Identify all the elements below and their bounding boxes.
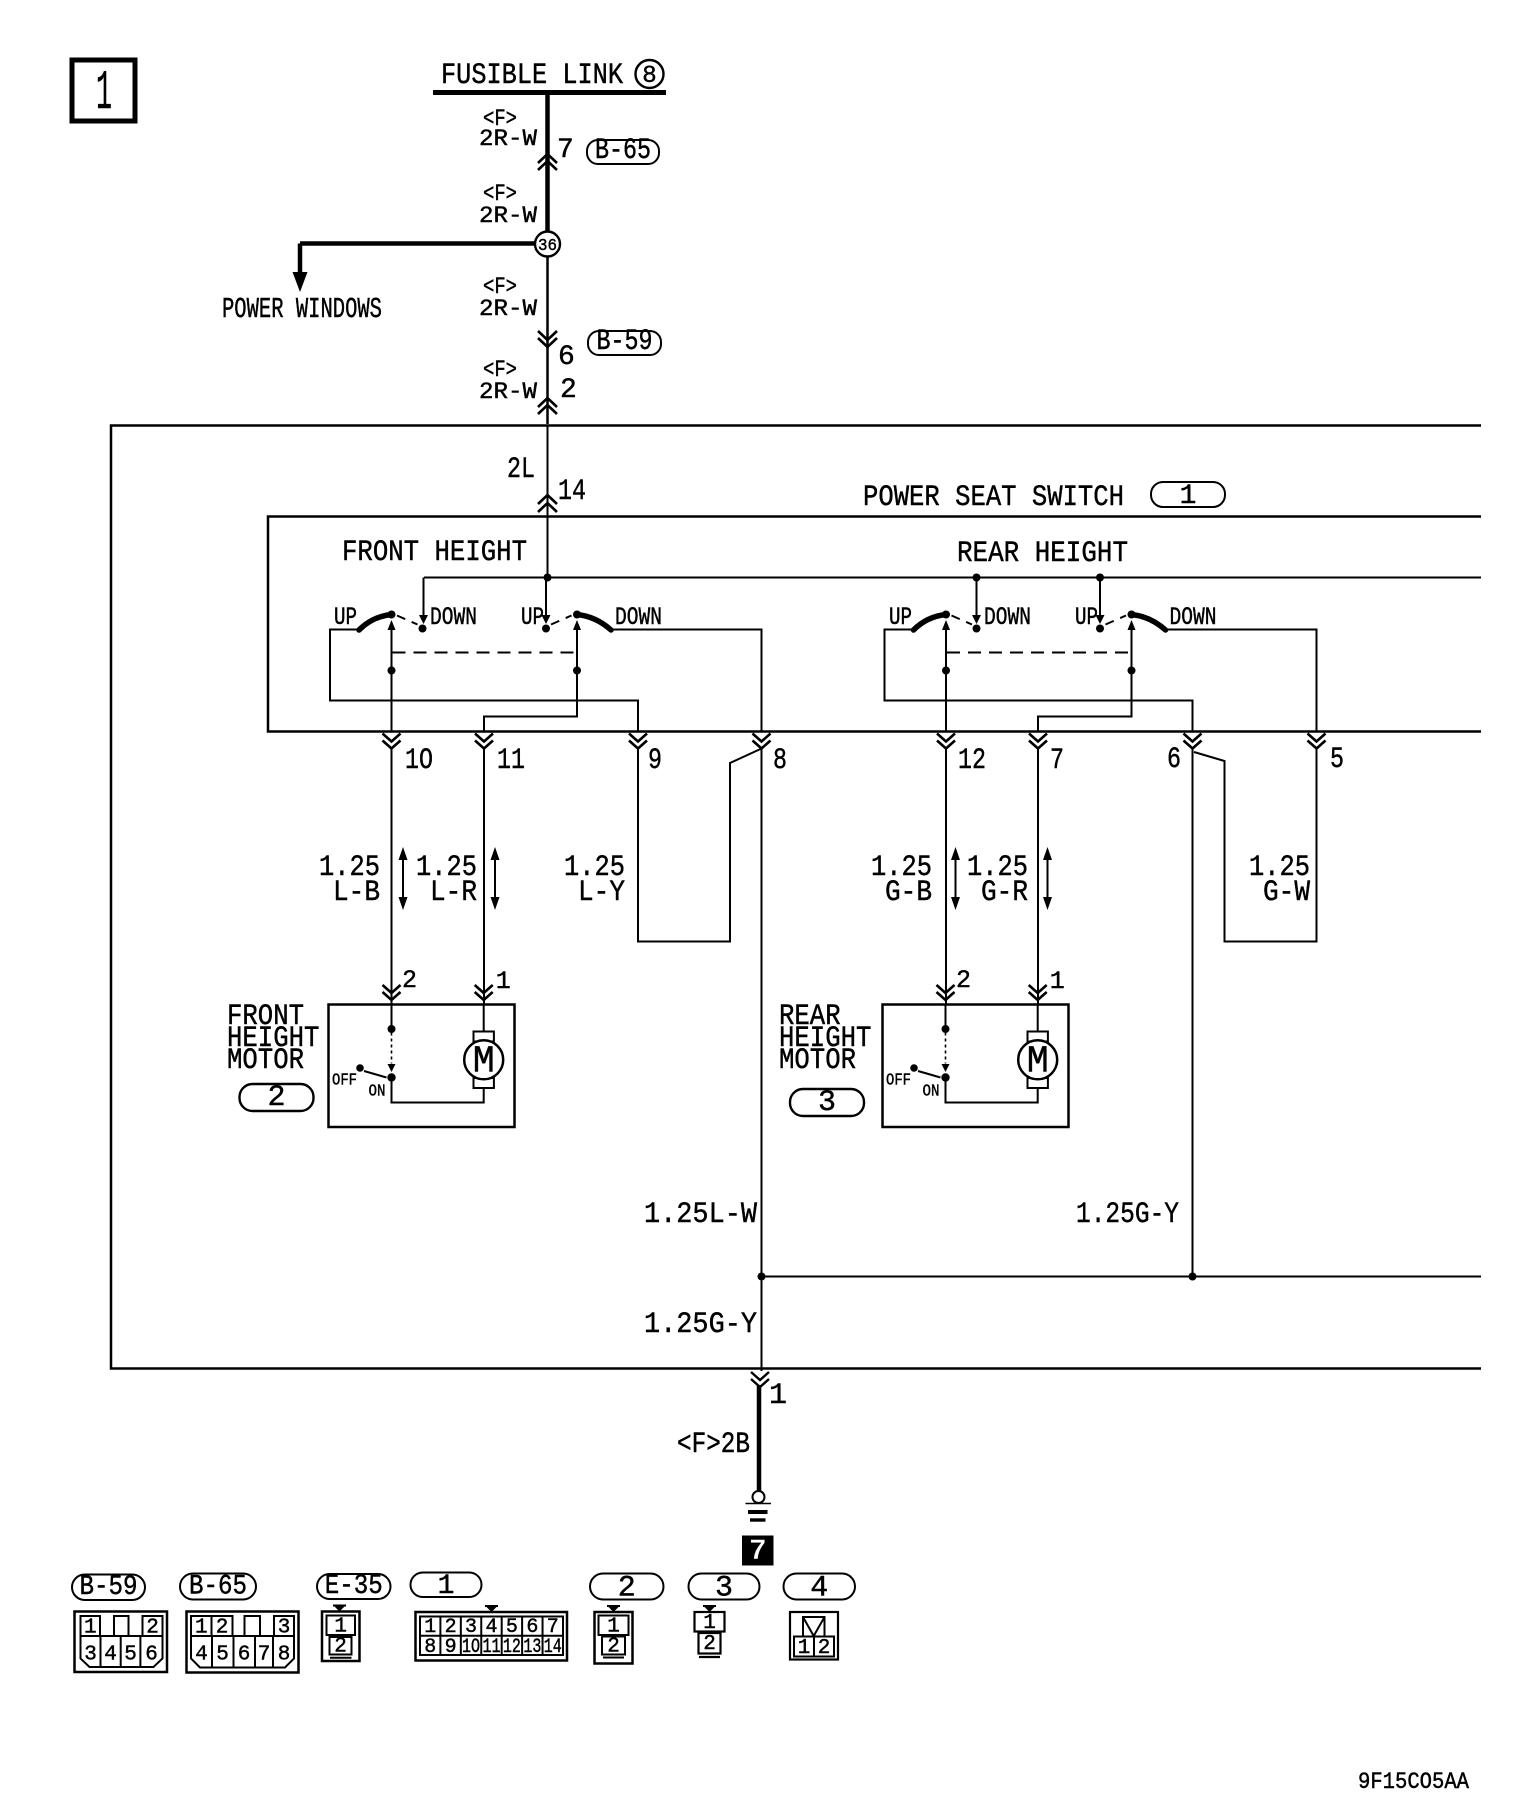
front height motor motor M bbox=[464, 1032, 503, 1089]
fusible link bus bar bbox=[433, 90, 666, 95]
front height motor limit switch dashed path bbox=[391, 1033, 393, 1064]
front height motor OFF contact node bbox=[356, 1064, 364, 1072]
connector B-59 pinout bbox=[75, 1612, 168, 1673]
svg-text:8: 8 bbox=[642, 63, 656, 90]
svg-text:L-B: L-B bbox=[333, 876, 380, 910]
svg-text:B-59: B-59 bbox=[80, 1572, 138, 1603]
switch REAR-DOWN S4 DOWN contact wire to pin bbox=[1166, 630, 1317, 732]
switch REAR-UP S3 pivot node bbox=[942, 611, 950, 619]
wire 1.25 L-W pin8 to ground rail bbox=[761, 749, 763, 1277]
switch FRONT-UP S1 wiper arc bbox=[359, 615, 392, 631]
wire 1.25 L-B pin10 to motor bbox=[391, 749, 393, 1004]
svg-text:1: 1 bbox=[96, 61, 112, 125]
switch FRONT-DOWN S2 pivot node bbox=[573, 611, 581, 619]
front right UP contact bbox=[542, 625, 550, 633]
svg-text:8: 8 bbox=[278, 1644, 291, 1667]
front height motor internal node bbox=[388, 1025, 396, 1033]
connector chevron pin 2 (up) bbox=[538, 398, 557, 414]
svg-text:FUSIBLE LINK: FUSIBLE LINK bbox=[441, 59, 623, 93]
connector 3 pinout bbox=[695, 1606, 725, 1657]
front left DOWN contact bbox=[419, 625, 427, 633]
svg-text:6: 6 bbox=[1167, 743, 1181, 777]
rear height motor limit switch dashed path bbox=[945, 1033, 947, 1064]
svg-text:2: 2 bbox=[607, 1636, 620, 1659]
svg-text:ON: ON bbox=[369, 1083, 386, 1102]
switch REAR-UP S3 UP contact wire to pin bbox=[885, 630, 1193, 732]
switch tag 1 bbox=[1151, 481, 1225, 512]
value label F 2R-W (3) bbox=[479, 274, 537, 322]
svg-text:9: 9 bbox=[648, 744, 662, 778]
svg-text:MOTOR: MOTOR bbox=[779, 1044, 856, 1078]
svg-text:1.25L-W: 1.25L-W bbox=[644, 1198, 757, 1232]
svg-text:7: 7 bbox=[1050, 744, 1064, 778]
svg-text:G-W: G-W bbox=[1263, 876, 1310, 910]
connector B-59 tag bbox=[588, 325, 661, 359]
rear left DOWN contact bbox=[973, 625, 981, 633]
svg-text:2: 2 bbox=[956, 966, 971, 995]
connector chevron pin 9 (down) bbox=[629, 734, 647, 749]
front height motor internal wire from pin 2 bbox=[391, 1005, 393, 1030]
direction arrow at G-B bbox=[951, 847, 960, 910]
svg-text:6: 6 bbox=[238, 1644, 251, 1667]
rear height motor name label bbox=[779, 1000, 871, 1078]
svg-text:B-65: B-65 bbox=[189, 1572, 247, 1603]
connector chevron pin 12 (down) bbox=[937, 734, 955, 749]
svg-text:3: 3 bbox=[84, 1644, 97, 1667]
wire 1.25 G-B pin12 to motor bbox=[945, 749, 947, 1004]
svg-text:B-59: B-59 bbox=[597, 325, 653, 359]
mechanical link front (dashed) bbox=[393, 652, 577, 654]
connector chevron rear height motor pin 2 (down) bbox=[937, 985, 955, 1000]
svg-text:2: 2 bbox=[618, 1572, 636, 1606]
rear right UP contact bbox=[1096, 625, 1104, 633]
svg-text:6: 6 bbox=[145, 1644, 158, 1667]
value label F 2R-W (4) bbox=[479, 357, 537, 405]
value label F 2R-W (1) bbox=[479, 106, 537, 152]
svg-text:4: 4 bbox=[810, 1572, 828, 1606]
svg-text:2: 2 bbox=[703, 1633, 716, 1656]
connector 1 tag (bottom row) bbox=[411, 1571, 482, 1602]
front height motor limit switch moving contact bbox=[388, 1064, 396, 1072]
connector B-65 pinout bbox=[187, 1612, 299, 1673]
connector 4 tag (bottom row) bbox=[784, 1572, 856, 1606]
svg-text:12: 12 bbox=[503, 1636, 521, 1659]
svg-text:<F>2B: <F>2B bbox=[677, 1428, 750, 1462]
connector chevron pin 7 (down) bbox=[1029, 734, 1047, 749]
svg-text:M: M bbox=[1027, 1041, 1049, 1084]
feed drop to front DOWN contact bbox=[419, 578, 428, 625]
rear height motor limit switch moving contact bbox=[942, 1064, 950, 1072]
switch FRONT-DOWN S2 common node bbox=[573, 667, 581, 675]
value label 1.25 G-W bbox=[1249, 851, 1310, 910]
svg-text:1: 1 bbox=[798, 1637, 811, 1660]
connector 2 tag (bottom row) bbox=[590, 1572, 664, 1606]
rear height motor tag 3 bbox=[790, 1086, 864, 1120]
feed drop to front UP contact bbox=[542, 578, 551, 625]
svg-text:1O: 1O bbox=[405, 744, 433, 778]
connector 3 tag (bottom row) bbox=[689, 1572, 760, 1606]
connector chevron pin 6 (down) bbox=[1184, 734, 1202, 749]
switch REAR-DOWN S4 common wire with jog bbox=[1038, 628, 1132, 732]
svg-text:7: 7 bbox=[557, 135, 574, 166]
svg-text:M: M bbox=[473, 1041, 495, 1084]
switch REAR-DOWN S4 wiper arc bbox=[1132, 615, 1166, 631]
svg-text:POWER SEAT SWITCH: POWER SEAT SWITCH bbox=[863, 481, 1124, 515]
svg-text:7: 7 bbox=[258, 1644, 271, 1667]
svg-text:3: 3 bbox=[278, 1617, 291, 1640]
rear height motor internal wire from pin 1 bbox=[1037, 1005, 1039, 1032]
svg-text:4: 4 bbox=[195, 1644, 208, 1667]
connector chevron rear height motor pin 1 (down) bbox=[1029, 985, 1047, 1000]
svg-text:9: 9 bbox=[445, 1636, 457, 1659]
svg-text:13: 13 bbox=[523, 1636, 541, 1659]
svg-text:OFF: OFF bbox=[332, 1072, 357, 1091]
connector 2 pinout bbox=[595, 1606, 633, 1664]
connector chevron B-65 pin 7 (up) bbox=[538, 154, 557, 170]
wire branch to power windows (thick) bbox=[300, 241, 540, 246]
junction node L-W/rail bbox=[758, 1273, 766, 1281]
svg-text:1: 1 bbox=[1180, 481, 1197, 512]
front height motor lever bbox=[364, 1071, 387, 1078]
feed drop to rear UP contact bbox=[1096, 578, 1105, 625]
svg-text:2R-W: 2R-W bbox=[479, 203, 537, 229]
ground rail wire bbox=[762, 1276, 1482, 1278]
svg-text:12: 12 bbox=[958, 744, 986, 778]
switch REAR-UP S3 dashed throw to DOWN bbox=[952, 616, 973, 625]
switch REAR-UP S3 common node bbox=[942, 667, 950, 675]
rear height motor lever bbox=[918, 1071, 941, 1078]
connector chevron front height motor pin 2 (down) bbox=[383, 985, 401, 1000]
svg-text:4: 4 bbox=[104, 1644, 117, 1667]
feed wire inside switch bbox=[424, 577, 1481, 579]
svg-text:L-Y: L-Y bbox=[578, 876, 625, 910]
svg-text:1: 1 bbox=[769, 1379, 787, 1413]
connector B-65 tag bbox=[587, 134, 659, 168]
svg-text:1.25G-Y: 1.25G-Y bbox=[1076, 1198, 1179, 1232]
connector chevron pin 8 (down) bbox=[753, 734, 771, 749]
svg-text:9F15CO5AA: 9F15CO5AA bbox=[1358, 1769, 1469, 1795]
svg-text:UP: UP bbox=[889, 603, 912, 632]
value label F 2R-W (2) bbox=[479, 181, 537, 229]
connector chevron pin 14 (up) bbox=[538, 495, 557, 512]
value label 1.25 G-B bbox=[871, 851, 932, 910]
front height motor limit switch ON node bbox=[387, 1073, 395, 1081]
switch REAR-DOWN S4 dashed throw to UP bbox=[1106, 616, 1127, 625]
svg-text:5: 5 bbox=[1330, 743, 1344, 777]
connector chevron pin 5 (down) bbox=[1308, 734, 1326, 749]
svg-text:UP: UP bbox=[1075, 603, 1098, 632]
svg-text:1O: 1O bbox=[462, 1636, 480, 1659]
connector chevron front height motor pin 1 (down) bbox=[475, 985, 493, 1000]
rear height motor box bbox=[883, 1005, 1069, 1128]
svg-text:DOWN: DOWN bbox=[1170, 603, 1217, 632]
rear height motor limit switch ON node bbox=[941, 1073, 949, 1081]
switch FRONT-DOWN S2 wiper arm arrow bbox=[573, 620, 581, 630]
svg-text:2: 2 bbox=[267, 1081, 285, 1115]
switch REAR-UP S3 common wire bbox=[945, 628, 947, 732]
svg-text:G-B: G-B bbox=[885, 876, 932, 910]
rear height motor motor M bbox=[1018, 1032, 1057, 1089]
switch FRONT-UP S1 UP contact wire to pin bbox=[330, 630, 638, 732]
wire 2R-W from fusible link (thick) bbox=[545, 92, 550, 243]
svg-text:UP: UP bbox=[521, 603, 544, 632]
svg-text:5: 5 bbox=[124, 1644, 137, 1667]
svg-text:3: 3 bbox=[715, 1572, 733, 1606]
connector chevron B-59 pin 6 (down) bbox=[538, 331, 557, 347]
front height motor wire switch to motor bbox=[392, 1078, 484, 1103]
switch REAR-UP S3 wiper arm arrow bbox=[942, 620, 950, 630]
ground symbol bbox=[746, 1491, 772, 1520]
power seat switch inner box bbox=[268, 517, 1481, 732]
connector chevron pin 11 (down) bbox=[475, 734, 493, 749]
mechanical link rear (dashed) bbox=[947, 652, 1131, 654]
svg-text:2: 2 bbox=[146, 1617, 159, 1640]
switch REAR-DOWN S4 wiper arm arrow bbox=[1128, 620, 1136, 630]
svg-text:REAR HEIGHT: REAR HEIGHT bbox=[957, 537, 1128, 571]
wire 1.25 G-W pin6 jog to pin5 bbox=[1194, 749, 1317, 942]
connector E-35 tag (bottom row) bbox=[317, 1571, 391, 1602]
svg-text:G-R: G-R bbox=[981, 876, 1028, 910]
ground id box 7 bbox=[742, 1535, 774, 1569]
svg-text:POWER WINDOWS: POWER WINDOWS bbox=[222, 293, 382, 326]
svg-text:2L: 2L bbox=[507, 453, 535, 487]
rear height motor wire switch to motor bbox=[946, 1078, 1038, 1103]
front height motor box bbox=[329, 1005, 515, 1128]
feed drop to rear DOWN contact bbox=[972, 578, 981, 625]
power seat switch outer box bbox=[111, 426, 1481, 1369]
svg-text:DOWN: DOWN bbox=[615, 603, 662, 632]
connector chevron pin 10 (down) bbox=[383, 734, 401, 749]
switch FRONT-UP S1 dashed throw to DOWN bbox=[397, 616, 418, 625]
connector 1 pinout bbox=[416, 1606, 568, 1661]
svg-text:OFF: OFF bbox=[886, 1072, 911, 1091]
svg-text:5: 5 bbox=[216, 1644, 229, 1667]
svg-text:2R-W: 2R-W bbox=[479, 379, 537, 405]
svg-text:1.25G-Y: 1.25G-Y bbox=[644, 1308, 757, 1342]
switch FRONT-UP S1 common wire bbox=[391, 628, 393, 732]
svg-text:2: 2 bbox=[402, 966, 417, 995]
switch FRONT-UP S1 wiper arm arrow bbox=[388, 620, 396, 630]
direction arrow at G-R bbox=[1043, 847, 1052, 910]
switch FRONT-UP S1 pivot node bbox=[388, 611, 396, 619]
switch FRONT-DOWN S2 wiper arc bbox=[577, 615, 611, 631]
svg-text:14: 14 bbox=[558, 475, 586, 509]
connector 4 pinout (motor) bbox=[790, 1612, 838, 1660]
connector E-35 pinout bbox=[322, 1606, 360, 1662]
svg-text:2: 2 bbox=[216, 1617, 229, 1640]
svg-text:L-R: L-R bbox=[430, 876, 477, 910]
svg-text:ON: ON bbox=[923, 1083, 940, 1102]
svg-text:8: 8 bbox=[773, 744, 787, 778]
switch REAR-UP S3 wiper arc bbox=[914, 615, 947, 631]
switch FRONT-UP S1 common node bbox=[388, 667, 396, 675]
wire rail to ground pin bbox=[761, 1277, 763, 1372]
svg-text:1: 1 bbox=[195, 1617, 208, 1640]
svg-text:B-65: B-65 bbox=[595, 134, 651, 168]
wire 1.25 L-Y pin9 jog to pin8 bbox=[638, 749, 761, 942]
svg-text:2: 2 bbox=[560, 375, 577, 406]
junction node rear feed 2 bbox=[1096, 574, 1104, 582]
svg-text:FRONT HEIGHT: FRONT HEIGHT bbox=[342, 536, 527, 570]
connector B-59 tag (bottom row) bbox=[72, 1572, 145, 1603]
svg-text:3: 3 bbox=[818, 1086, 836, 1120]
svg-text:DOWN: DOWN bbox=[984, 603, 1031, 632]
wire 1.25 G-R pin7 to motor bbox=[1037, 749, 1039, 1004]
junction node rear feed 1 bbox=[973, 574, 981, 582]
value label 1.25 G-R bbox=[967, 851, 1028, 910]
value label 1.25 L-B bbox=[319, 851, 380, 910]
wire 1.25 L-R pin11 to motor bbox=[483, 749, 485, 1004]
value label 1.25 L-Y bbox=[564, 851, 625, 910]
value label 1.25 L-R bbox=[416, 851, 477, 910]
front height motor name label bbox=[227, 1000, 319, 1078]
connector chevron ground pin 1 (down) bbox=[751, 1372, 769, 1387]
rear height motor OFF contact node bbox=[910, 1064, 918, 1072]
svg-text:2: 2 bbox=[818, 1637, 831, 1660]
switch FRONT-DOWN S2 DOWN contact wire to pin bbox=[611, 630, 762, 732]
svg-text:1: 1 bbox=[438, 1571, 455, 1602]
svg-text:14: 14 bbox=[544, 1636, 562, 1659]
svg-text:1: 1 bbox=[84, 1617, 97, 1640]
svg-text:E-35: E-35 bbox=[325, 1571, 383, 1602]
switch REAR-DOWN S4 pivot node bbox=[1128, 611, 1136, 619]
svg-text:11: 11 bbox=[497, 744, 525, 778]
junction node wire14/feed bbox=[544, 574, 552, 582]
svg-text:2: 2 bbox=[334, 1636, 347, 1659]
svg-text:1: 1 bbox=[703, 1612, 716, 1635]
svg-text:7: 7 bbox=[749, 1535, 767, 1569]
svg-text:1: 1 bbox=[1050, 967, 1065, 996]
splice node 36 bbox=[535, 232, 560, 257]
wire F 2B (thick) bbox=[757, 1385, 762, 1491]
svg-text:2R-W: 2R-W bbox=[479, 296, 537, 322]
rear height motor internal node bbox=[942, 1025, 950, 1033]
rear height motor internal wire from pin 2 bbox=[945, 1005, 947, 1030]
direction arrow at L-B bbox=[399, 847, 408, 910]
wire 2L pin 14 bbox=[547, 425, 549, 578]
svg-text:DOWN: DOWN bbox=[430, 603, 477, 632]
direction arrow at L-R bbox=[491, 847, 500, 910]
svg-text:2R-W: 2R-W bbox=[479, 126, 537, 152]
switch FRONT-DOWN S2 dashed throw to UP bbox=[551, 616, 572, 625]
wire 1.25 G-Y pin6 to ground rail bbox=[1192, 749, 1194, 1277]
svg-text:8: 8 bbox=[424, 1636, 436, 1659]
page number box 1 bbox=[72, 60, 135, 125]
connector B-65 tag (bottom row) bbox=[180, 1572, 256, 1603]
fusible link 8 label bbox=[441, 59, 664, 93]
svg-text:UP: UP bbox=[334, 603, 357, 632]
svg-text:1: 1 bbox=[496, 967, 511, 996]
svg-text:6: 6 bbox=[558, 342, 575, 373]
front height motor internal wire from pin 1 bbox=[483, 1005, 485, 1032]
svg-text:MOTOR: MOTOR bbox=[227, 1044, 304, 1078]
junction node G-Y/rail bbox=[1189, 1273, 1197, 1281]
svg-text:11: 11 bbox=[482, 1636, 500, 1659]
switch REAR-DOWN S4 common node bbox=[1128, 667, 1136, 675]
wire 2R-W below splice bbox=[546, 257, 549, 425]
svg-text:36: 36 bbox=[538, 237, 557, 256]
front height motor tag 2 bbox=[240, 1081, 314, 1115]
switch FRONT-DOWN S2 common wire with jog bbox=[484, 628, 577, 732]
